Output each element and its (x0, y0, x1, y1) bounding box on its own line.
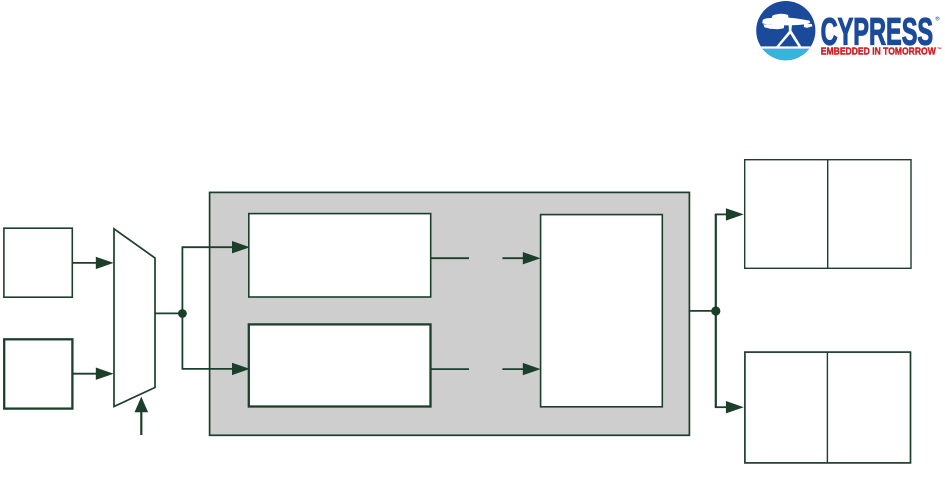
svg-text:EMBEDDED IN TOMORROW: EMBEDDED IN TOMORROW (821, 47, 936, 58)
node: output junction (711, 306, 720, 315)
wire: top branch into white box 1 (182, 246, 234, 248)
block: right-bottom output box (745, 352, 911, 463)
tree trunk left leg (776, 31, 792, 47)
tree trunk right leg (789, 31, 802, 47)
wire: gray box output to node (689, 310, 715, 312)
wire: vertical branch at node (181, 247, 183, 369)
block: left-top input box (4, 228, 72, 297)
tree canopy main band (762, 17, 810, 25)
node: mux output junction (178, 309, 187, 318)
divider of right-bottom box (826, 352, 828, 463)
tree canopy lower-left lobe (763, 24, 784, 29)
block: white box 1 (top, inside gray) (249, 214, 431, 297)
divider of right-top box (827, 160, 829, 269)
wire: top branch into right-top box (715, 213, 727, 215)
block: white box 2 (bottom, inside gray) (249, 324, 431, 406)
svg-text:™: ™ (937, 47, 942, 53)
white ground stripe (755, 46, 818, 48)
wire: bottom branch into white box 2 (182, 368, 234, 370)
wire: mux output to node (155, 312, 182, 314)
mux M1 (114, 229, 155, 407)
wire: left-bottom box to mux (72, 373, 97, 375)
svg-text:®: ® (935, 16, 940, 23)
tree trunk neck (789, 25, 792, 32)
block: left-bottom input box (4, 339, 72, 408)
wire: white box 2 output stub (431, 368, 470, 370)
logo: Cypress circle icon (755, 1, 818, 62)
block: right-top output box (745, 160, 911, 269)
wire: bottom branch into right-bottom box (715, 406, 727, 408)
wire: vertical branch at output node (715, 214, 717, 407)
wire: mux select input from below (140, 412, 142, 436)
wire: arrow into tall box (top) (502, 257, 524, 259)
tree canopy top bump (772, 14, 789, 19)
wire: white box 1 output stub (431, 257, 469, 259)
wire: arrow into tall box (bottom) (502, 368, 524, 370)
block: tall white box (right, inside gray) (541, 215, 663, 407)
tree canopy right tip (804, 24, 813, 28)
light blue water (755, 49, 818, 62)
wire: left-top box to mux (72, 262, 97, 264)
block: gray subsystem container (210, 192, 690, 435)
